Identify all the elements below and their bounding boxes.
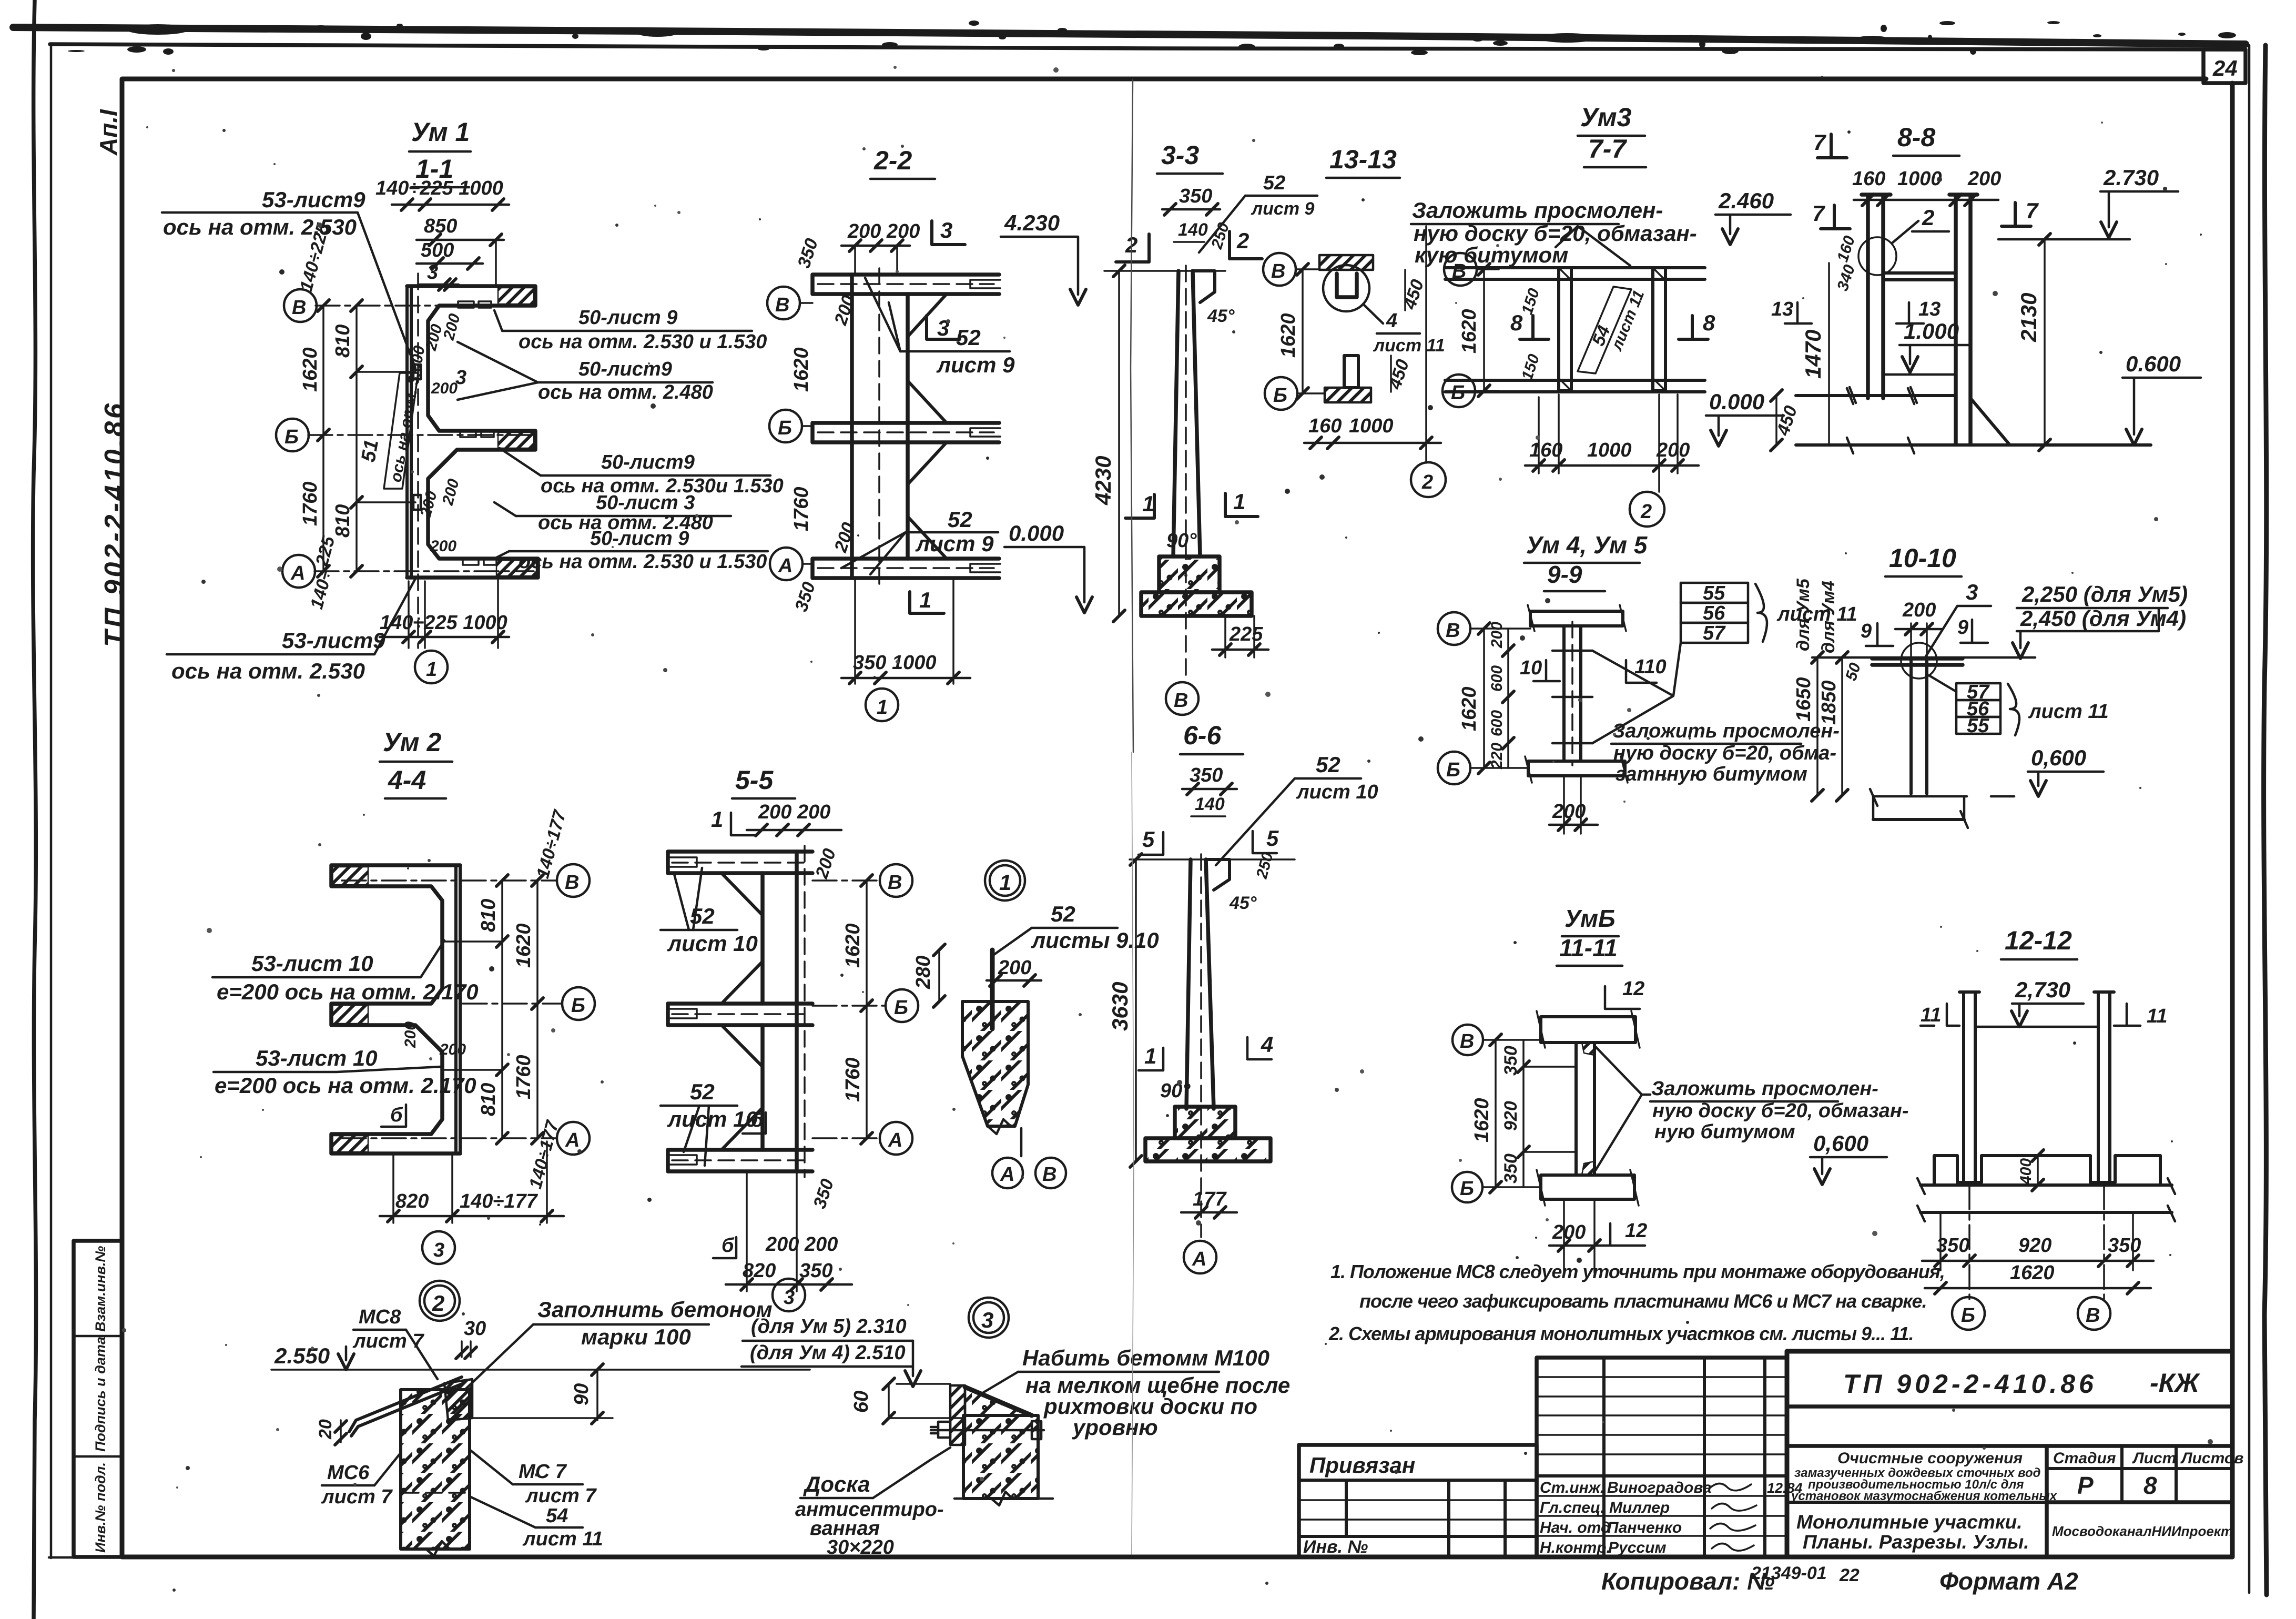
svg-text:1850: 1850 — [1818, 680, 1840, 725]
svg-text:4.230: 4.230 — [1004, 210, 1060, 235]
svg-text:МС6: МС6 — [327, 1462, 370, 1484]
web 10-10 — [1911, 661, 1927, 794]
13-13 top hatched bar — [1319, 255, 1373, 270]
svg-text:Ум 2: Ум 2 — [383, 727, 441, 757]
svg-text:1620: 1620 — [1471, 1098, 1493, 1142]
flange slots — [458, 301, 474, 308]
axis circle В bottom 3-3 — [1166, 682, 1198, 715]
leader note 11-11 — [1596, 1047, 1650, 1170]
13-13 U profile detail circle — [1323, 265, 1369, 311]
svg-text:56: 56 — [1703, 602, 1725, 624]
svg-text:350: 350 — [1501, 1153, 1521, 1183]
svg-text:52: 52 — [1263, 172, 1285, 194]
concrete block detail 3 — [963, 1415, 1038, 1499]
arm middle 5-5 — [668, 1004, 812, 1025]
flange hatched tips — [498, 288, 534, 304]
svg-text:160: 160 — [1852, 168, 1885, 190]
arm top 5-5 — [668, 852, 812, 873]
svg-text:Ум3: Ум3 — [1580, 103, 1632, 132]
wedge detail 3 — [965, 1387, 1032, 1415]
svg-text:1620: 1620 — [2010, 1262, 2055, 1284]
svg-text:-КЖ: -КЖ — [2150, 1368, 2200, 1398]
svg-text:200: 200 — [1552, 801, 1586, 823]
svg-text:350 1000: 350 1000 — [853, 652, 937, 674]
svg-text:1: 1 — [711, 807, 723, 832]
svg-text:10-10: 10-10 — [1889, 543, 1956, 573]
svg-text:8: 8 — [1703, 310, 1715, 335]
svg-text:50-лист9: 50-лист9 — [578, 358, 672, 380]
signature table — [1537, 1358, 1787, 1557]
svg-text:2: 2 — [1236, 228, 1249, 253]
axis dash 6-6 — [1200, 854, 1202, 1237]
svg-text:0.000: 0.000 — [1009, 521, 1064, 545]
svg-text:45°: 45° — [1229, 893, 1257, 913]
sheet number box 24 — [2203, 49, 2246, 83]
svg-text:лист 11: лист 11 — [522, 1528, 603, 1550]
svg-text:Очистные сооружения: Очистные сооружения — [1837, 1450, 2023, 1467]
svg-text:лист 10: лист 10 — [1296, 781, 1378, 803]
axis circle А 4-4 — [557, 1122, 590, 1155]
svg-text:лист 11: лист 11 — [1776, 603, 1857, 625]
axis circle В 9-9 — [1438, 612, 1470, 645]
svg-text:820: 820 — [395, 1190, 429, 1212]
border right wavy edge — [2264, 45, 2267, 1595]
svg-text:2. Схемы армирования монолитны: 2. Схемы армирования монолитных участков… — [1328, 1323, 1913, 1344]
svg-text:160: 160 — [1529, 439, 1562, 461]
svg-text:(для Ум 4) 2.510: (для Ум 4) 2.510 — [750, 1342, 906, 1364]
svg-text:200: 200 — [1967, 168, 2001, 190]
concrete mass detail — [962, 1001, 1028, 1126]
svg-text:затнную битумом: затнную битумом — [1616, 763, 1807, 785]
svg-text:МосводоканалНИИпроект: МосводоканалНИИпроект — [2052, 1523, 2233, 1539]
dim 1620 7-7 — [1483, 269, 1485, 391]
dim 1470 rotated — [1828, 263, 1830, 445]
svg-text:лист 10: лист 10 — [667, 1107, 758, 1131]
dim 1620 11-11 — [1495, 1040, 1497, 1187]
svg-text:52: 52 — [690, 1079, 715, 1104]
svg-text:160: 160 — [1308, 415, 1342, 437]
svg-text:50-лист 9: 50-лист 9 — [590, 528, 689, 550]
svg-text:Р: Р — [2077, 1472, 2094, 1499]
svg-text:200 200: 200 200 — [847, 220, 920, 242]
svg-text:3630: 3630 — [1108, 982, 1132, 1031]
axis circle Б 5-5 — [886, 989, 918, 1022]
svg-text:МС8: МС8 — [359, 1306, 401, 1328]
wall Um2 profile with arms left — [331, 865, 460, 1153]
svg-text:9: 9 — [1957, 616, 1968, 639]
svg-text:лист 11: лист 11 — [1373, 336, 1445, 356]
svg-text:e=200 ось на отм. 2.170: e=200 ось на отм. 2.170 — [215, 1073, 476, 1098]
svg-text:Монолитные участки.: Монолитные участки. — [1796, 1511, 2023, 1533]
privyazan table — [1299, 1445, 1537, 1557]
svg-text:А: А — [1192, 1248, 1206, 1270]
svg-text:А: А — [1000, 1163, 1014, 1186]
svg-text:ТП 902-2-410.86: ТП 902-2-410.86 — [99, 401, 130, 647]
svg-text:ную доску б=20, обмазан-: ную доску б=20, обмазан- — [1414, 221, 1697, 246]
svg-text:140÷177: 140÷177 — [460, 1190, 539, 1212]
footing profile 12-12 — [1934, 1156, 2160, 1185]
svg-text:ТП 902-2-410.86: ТП 902-2-410.86 — [1843, 1369, 2097, 1399]
svg-text:3-3: 3-3 — [1161, 140, 1199, 170]
svg-text:Б: Б — [571, 995, 585, 1017]
section circle 1 under Um1 — [415, 651, 448, 683]
stage list columns — [2120, 1446, 2124, 1502]
svg-text:3: 3 — [981, 1308, 993, 1332]
svg-text:Ум 4, Ум 5: Ум 4, Ум 5 — [1526, 531, 1648, 559]
svg-text:Привязан: Привязан — [1309, 1453, 1415, 1478]
svg-text:листы 9.10: листы 9.10 — [1031, 928, 1159, 953]
svg-text:б: б — [722, 1235, 735, 1257]
svg-text:0,600: 0,600 — [2031, 745, 2086, 770]
svg-text:225: 225 — [1229, 623, 1263, 645]
svg-text:11: 11 — [2147, 1005, 2167, 1027]
web 11-11 — [1576, 1043, 1594, 1175]
svg-text:350: 350 — [1936, 1235, 1969, 1257]
bolt detail 3 — [931, 1427, 1044, 1433]
svg-text:1760: 1760 — [299, 481, 321, 526]
svg-text:Формат А2: Формат А2 — [1939, 1567, 2078, 1595]
level line 2.730 — [1998, 238, 2130, 241]
axis line А 4-4 — [342, 1137, 556, 1139]
footing 6-6 — [1175, 1107, 1235, 1138]
svg-text:3: 3 — [455, 367, 466, 389]
svg-text:1760: 1760 — [790, 487, 812, 531]
section circle 3 under 4-4 — [422, 1231, 455, 1264]
svg-text:45°: 45° — [1207, 306, 1235, 326]
dims 350 920 350 12-12 — [1968, 1185, 1970, 1299]
svg-text:200: 200 — [431, 380, 458, 397]
arm top 2-2 — [812, 275, 999, 294]
border bottom extension — [49, 1556, 122, 1559]
left stamp column table — [74, 1241, 122, 1557]
svg-text:200: 200 — [1902, 599, 1936, 621]
svg-text:лист 7: лист 7 — [525, 1485, 597, 1507]
dim 820 350 bottom 5-5 — [746, 1171, 748, 1291]
svg-text:4-4: 4-4 — [388, 765, 426, 795]
detail 3 callout circle — [969, 1298, 1009, 1338]
dim 350 1000 bottom 2-2 — [854, 578, 856, 684]
footing 3-3 — [1159, 556, 1220, 592]
svg-text:810: 810 — [478, 1083, 500, 1116]
svg-text:21349-01: 21349-01 — [1751, 1563, 1827, 1583]
svg-text:2: 2 — [1640, 501, 1652, 523]
border top heavy band — [13, 27, 2246, 44]
svg-text:350: 350 — [2108, 1235, 2141, 1257]
axis circle В 12-12 — [2078, 1297, 2110, 1330]
spine 2-2 — [850, 275, 854, 578]
svg-text:53-лист 10: 53-лист 10 — [256, 1046, 378, 1070]
svg-text:8: 8 — [2143, 1472, 2157, 1499]
svg-text:ную доску б=20, обма-: ную доску б=20, обма- — [1613, 742, 1836, 764]
svg-text:200: 200 — [439, 1041, 466, 1058]
title cells — [2045, 1446, 2049, 1557]
svg-text:Листов: Листов — [2180, 1450, 2243, 1467]
svg-text:53-лист 10: 53-лист 10 — [251, 951, 373, 976]
svg-text:920: 920 — [1501, 1101, 1521, 1131]
svg-text:Заложить просмолен-: Заложить просмолен- — [1412, 198, 1663, 222]
svg-text:12-12: 12-12 — [2005, 926, 2072, 955]
svg-text:90: 90 — [571, 1383, 593, 1405]
svg-text:177: 177 — [1193, 1188, 1227, 1210]
wall Um1 profile with flanges — [407, 286, 538, 578]
dim 200 bottom 9-9 — [1563, 776, 1565, 834]
svg-text:ось на отм. 2.530 и 1.530: ось на отм. 2.530 и 1.530 — [519, 551, 767, 573]
svg-text:5: 5 — [1266, 826, 1279, 851]
svg-text:3: 3 — [940, 218, 952, 242]
svg-text:А: А — [778, 555, 793, 577]
svg-text:Б: Б — [1961, 1304, 1975, 1327]
svg-text:350: 350 — [1179, 185, 1212, 207]
detail circle 2 under 7-7 — [1630, 492, 1664, 527]
svg-text:140÷225 1000: 140÷225 1000 — [375, 177, 503, 199]
embedded plate — [990, 950, 995, 1029]
svg-text:110: 110 — [1634, 656, 1667, 678]
svg-text:Взам.инв.№: Взам.инв.№ — [93, 1246, 108, 1332]
13-13 lower bar — [1344, 356, 1358, 388]
svg-text:б: б — [390, 1104, 403, 1126]
svg-text:12: 12 — [1622, 978, 1644, 1000]
svg-text:350: 350 — [799, 1260, 832, 1282]
svg-text:1. Положение МС8 следует уточн: 1. Положение МС8 следует уточнить при мо… — [1330, 1261, 1945, 1282]
svg-text:140÷225 1000: 140÷225 1000 — [380, 612, 507, 634]
svg-text:МС 7: МС 7 — [519, 1461, 567, 1483]
box walls 7-7 — [1559, 268, 1571, 391]
svg-text:Виноградова: Виноградова — [1607, 1479, 1712, 1496]
svg-text:2.550: 2.550 — [274, 1343, 330, 1368]
axis circle Б 11-11 — [1452, 1172, 1482, 1202]
axis line Б — [308, 434, 532, 436]
svg-text:1.000: 1.000 — [1904, 319, 1959, 343]
hatched tips 4-4 — [332, 867, 368, 885]
svg-text:7: 7 — [1812, 201, 1825, 226]
svg-text:Б: Б — [1460, 1178, 1474, 1200]
svg-text:1: 1 — [1142, 491, 1154, 516]
svg-text:Н.контр.: Н.контр. — [1540, 1539, 1611, 1556]
svg-text:30: 30 — [464, 1318, 486, 1340]
svg-text:В: В — [1271, 260, 1285, 282]
svg-text:53-лист9: 53-лист9 — [282, 628, 385, 653]
svg-text:ось на отм. 2.530: ось на отм. 2.530 — [171, 659, 365, 683]
svg-text:1620: 1620 — [842, 923, 864, 968]
svg-text:140: 140 — [1178, 220, 1208, 240]
svg-text:Заложить просмолен-: Заложить просмолен- — [1651, 1078, 1878, 1100]
svg-text:для Ум5: для Ум5 — [1793, 578, 1813, 651]
svg-text:1620: 1620 — [299, 347, 321, 392]
arm bottom 2-2 — [812, 559, 999, 578]
svg-text:В: В — [775, 294, 789, 316]
axis line А — [314, 570, 534, 572]
svg-text:1: 1 — [999, 870, 1011, 895]
top slab 7-7 — [1445, 268, 1705, 279]
svg-text:Заполнить бетоном: Заполнить бетоном — [537, 1297, 773, 1322]
svg-text:5-5: 5-5 — [735, 765, 774, 795]
wedge block detail 2 — [444, 1379, 472, 1420]
axis circle Б — [276, 419, 309, 451]
svg-text:3: 3 — [937, 316, 949, 340]
bottom flange 10-10 — [1873, 795, 2014, 798]
axis circle А — [282, 555, 315, 588]
svg-text:В: В — [1460, 1030, 1474, 1053]
svg-text:В: В — [888, 872, 902, 894]
wall Um2 right edge — [456, 865, 460, 1153]
svg-text:Б: Б — [285, 426, 299, 448]
svg-text:8: 8 — [1510, 310, 1523, 335]
axis line B 4-4 — [342, 879, 556, 882]
callout circles А В detail — [1020, 1128, 1023, 1156]
svg-text:1620: 1620 — [1458, 309, 1480, 353]
svg-text:ось на отм. 2.480: ось на отм. 2.480 — [538, 381, 713, 403]
dim 820 140÷177 bottom 4-4 — [392, 1153, 394, 1223]
svg-text:55: 55 — [1703, 582, 1725, 604]
svg-text:50-лист 9: 50-лист 9 — [578, 307, 677, 329]
svg-text:13: 13 — [1771, 298, 1793, 320]
svg-text:Заложить просмолен-: Заложить просмолен- — [1612, 720, 1840, 742]
axis circle B 2-2 — [767, 287, 800, 319]
svg-text:В: В — [1446, 620, 1460, 642]
svg-text:1620: 1620 — [513, 923, 535, 968]
svg-text:4: 4 — [1261, 1032, 1273, 1057]
svg-text:Планы. Разрезы. Узлы.: Планы. Разрезы. Узлы. — [1803, 1531, 2029, 1553]
svg-text:2,450 (для Ум4): 2,450 (для Ум4) — [2020, 606, 2186, 631]
svg-text:11-11: 11-11 — [1559, 934, 1618, 962]
svg-text:лист 10: лист 10 — [667, 931, 758, 956]
svg-text:200: 200 — [430, 538, 456, 555]
svg-text:Б: Б — [894, 997, 908, 1019]
spine 5-5 — [795, 852, 799, 1171]
svg-text:2: 2 — [1922, 205, 1934, 230]
svg-text:уровню: уровню — [1072, 1415, 1158, 1440]
level line top 3-3 — [1104, 270, 1225, 272]
svg-text:Лист: Лист — [2132, 1450, 2176, 1467]
svg-text:после чего зафиксировать пласт: после чего зафиксировать пластинами МС6 … — [1359, 1290, 1927, 1312]
svg-text:24: 24 — [2212, 56, 2238, 80]
svg-text:220: 220 — [1488, 743, 1506, 770]
svg-text:2.730: 2.730 — [2103, 165, 2159, 190]
svg-text:1: 1 — [919, 588, 931, 612]
detail circle 2 under 13-13 — [1411, 462, 1446, 497]
leaders to list stack 9-9 — [1592, 643, 1681, 743]
svg-text:1000: 1000 — [1897, 168, 1942, 190]
svg-text:1760: 1760 — [842, 1057, 864, 1102]
svg-text:30×220: 30×220 — [827, 1536, 894, 1559]
svg-text:500: 500 — [421, 239, 454, 261]
dim column 810 810 4-4 — [501, 881, 503, 1138]
svg-text:В: В — [1042, 1163, 1056, 1186]
svg-text:810: 810 — [332, 504, 354, 538]
wall Um1 left edge — [407, 286, 411, 578]
axis line B — [316, 305, 534, 307]
detail 2 callout circle — [420, 1281, 460, 1321]
bottom slab 7-7 — [1445, 380, 1705, 392]
svg-text:810: 810 — [478, 899, 500, 932]
top slab 11-11 — [1541, 1017, 1635, 1043]
svg-text:52: 52 — [1316, 752, 1340, 777]
dim column 200 600 600 220 — [1507, 629, 1509, 768]
svg-text:Стадия: Стадия — [2053, 1450, 2116, 1467]
axis circle Б 4-4 — [562, 987, 595, 1020]
scan speckle noise — [1455, 302, 1457, 304]
svg-text:лист 9: лист 9 — [936, 352, 1015, 377]
wall anchor plates — [413, 365, 421, 379]
svg-text:лист 11: лист 11 — [2028, 701, 2109, 723]
joint circle 10-10 — [1901, 643, 1937, 679]
axis line Б 4-4 — [463, 1003, 562, 1005]
svg-text:1470: 1470 — [1801, 330, 1825, 379]
axis circle В 5-5 — [880, 864, 912, 897]
svg-text:Миллер: Миллер — [1609, 1499, 1670, 1516]
svg-text:22: 22 — [1839, 1565, 1860, 1585]
svg-text:лист 7: лист 7 — [321, 1486, 393, 1508]
svg-text:Руссим: Руссим — [1608, 1539, 1667, 1556]
svg-text:б: б — [751, 1109, 764, 1131]
svg-text:12: 12 — [1625, 1220, 1647, 1242]
svg-text:90°: 90° — [1160, 1080, 1191, 1102]
dim bottom 140÷225 1000 — [408, 581, 410, 648]
svg-text:10: 10 — [1520, 657, 1542, 679]
svg-text:лист 9: лист 9 — [915, 531, 994, 556]
bottom bar 9-9 — [1528, 761, 1625, 776]
svg-text:13-13: 13-13 — [1329, 145, 1397, 174]
svg-text:2130: 2130 — [2016, 293, 2041, 342]
dim 2130 rotated — [2044, 239, 2046, 445]
dim column 810 810 — [355, 306, 358, 571]
svg-text:140: 140 — [1195, 794, 1225, 814]
joint circle detail 2 — [1858, 237, 1896, 275]
axis circle В shared 3-3/13-13 — [1263, 253, 1296, 286]
column 3-3 — [1173, 271, 1179, 556]
wall slanted label 51 ось на отм.3.000 — [384, 373, 418, 489]
svg-text:Ап.I: Ап.I — [95, 109, 122, 156]
svg-text:В: В — [2086, 1304, 2100, 1327]
svg-text:Инв. №: Инв. № — [1303, 1537, 1368, 1557]
svg-text:60: 60 — [850, 1391, 872, 1413]
svg-text:52: 52 — [1051, 902, 1075, 926]
svg-text:0,600: 0,600 — [1813, 1131, 1868, 1156]
svg-text:200 200: 200 200 — [758, 801, 830, 823]
svg-text:1: 1 — [426, 659, 437, 681]
ledge lines 8-8 — [1796, 394, 1956, 397]
svg-text:А: А — [888, 1129, 902, 1151]
svg-text:600: 600 — [1488, 665, 1506, 692]
svg-text:Доска: Доска — [803, 1472, 870, 1496]
svg-text:1: 1 — [877, 696, 888, 719]
left dim columns 10-10 — [1816, 657, 1818, 795]
svg-text:200 200: 200 200 — [765, 1233, 838, 1256]
arm middle 2-2 — [812, 423, 999, 442]
svg-text:7-7: 7-7 — [1588, 134, 1627, 164]
svg-text:20: 20 — [316, 1419, 336, 1440]
axis circle Б 12-12 — [1952, 1297, 1985, 1330]
svg-text:2,250 (для Ум5): 2,250 (для Ум5) — [2021, 582, 2188, 606]
dim 1620 shared column — [1302, 269, 1304, 393]
svg-text:2-2: 2-2 — [873, 146, 912, 175]
svg-text:54: 54 — [546, 1505, 568, 1527]
svg-text:3: 3 — [1966, 580, 1978, 604]
svg-text:(для Ум 5) 2.310: (для Ум 5) 2.310 — [751, 1316, 907, 1338]
svg-text:лист 9: лист 9 — [1251, 199, 1315, 219]
svg-text:3: 3 — [427, 261, 438, 284]
svg-text:для Ум4: для Ум4 — [1818, 581, 1838, 653]
svg-text:1620: 1620 — [790, 347, 812, 392]
svg-text:1000: 1000 — [1349, 415, 1394, 437]
plate МС8 sloped — [349, 1377, 463, 1436]
svg-text:6-6: 6-6 — [1183, 721, 1222, 750]
svg-text:В: В — [292, 297, 306, 319]
svg-text:9: 9 — [1861, 620, 1872, 642]
svg-text:кую битумом: кую битумом — [1415, 242, 1568, 267]
svg-text:Инв.№ подл.: Инв.№ подл. — [93, 1462, 108, 1553]
cross tie 8-8 — [1883, 273, 1956, 280]
